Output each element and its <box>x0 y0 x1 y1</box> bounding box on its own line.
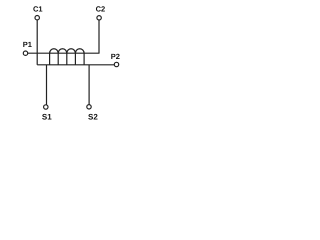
terminal P2 <box>114 62 118 66</box>
wire: C1 stem <box>36 20 38 65</box>
inductor L1 coil humps <box>50 49 85 53</box>
svg-text:P2: P2 <box>111 52 120 61</box>
svg-text:S1: S1 <box>42 113 52 122</box>
terminal P1 <box>23 51 27 55</box>
terminal S1 <box>44 105 48 109</box>
svg-text:P1: P1 <box>23 40 32 49</box>
svg-text:S2: S2 <box>88 112 98 121</box>
terminal S2 <box>87 105 91 109</box>
inductor L1 coil legs <box>49 53 51 65</box>
terminal C1 <box>35 16 39 20</box>
svg-text:C2: C2 <box>96 4 106 13</box>
wire: top line P1 to C2 <box>28 52 100 54</box>
wire: S1 stem <box>46 65 48 105</box>
svg-text:C1: C1 <box>33 4 43 13</box>
wire: C2 stem <box>98 20 100 53</box>
wire: S2 stem <box>88 65 90 105</box>
wire: bottom rail <box>37 64 114 66</box>
terminal C2 <box>97 16 101 20</box>
